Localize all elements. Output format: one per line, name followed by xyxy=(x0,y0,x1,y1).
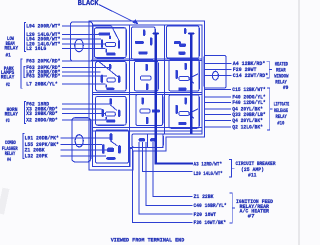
svg-text:L91 20DB/PK*: L91 20DB/PK* xyxy=(25,136,59,142)
svg-text:RELAY: RELAY xyxy=(4,46,18,52)
svg-text:Q2 12LG/BK*: Q2 12LG/BK* xyxy=(232,124,263,130)
svg-text:VIEWED FROM TERMINAL END: VIEWED FROM TERMINAL END xyxy=(111,236,185,243)
svg-text:Q33 20BR/LB*: Q33 20BR/LB* xyxy=(232,112,265,118)
svg-text:A3 12RD/WT*: A3 12RD/WT* xyxy=(194,161,223,167)
svg-text:#4: #4 xyxy=(7,157,11,163)
svg-text:F63 20PK/RD*: F63 20PK/RD* xyxy=(26,74,60,80)
svg-text:L2 16LG: L2 16LG xyxy=(26,46,46,52)
svg-text:F20 18WT: F20 18WT xyxy=(194,212,217,218)
svg-text:#1: #1 xyxy=(6,53,11,59)
svg-text:X2 20DG/RD*: X2 20DG/RD* xyxy=(26,117,58,123)
svg-text:RELEASE: RELEASE xyxy=(274,108,288,114)
svg-text:#11: #11 xyxy=(248,173,257,179)
svg-text:L94 200R/WT*: L94 200R/WT* xyxy=(26,24,60,30)
svg-text:L20 14LG/WT*: L20 14LG/WT* xyxy=(194,171,223,177)
svg-text:RELAY: RELAY xyxy=(276,114,288,120)
svg-text:#3: #3 xyxy=(6,118,10,124)
svg-text:X3 20BK/RD*: X3 20BK/RD* xyxy=(26,111,58,117)
svg-text:RELAY: RELAY xyxy=(5,112,19,118)
svg-text:#10: #10 xyxy=(277,120,284,126)
svg-text:Z1 20BK: Z1 20BK xyxy=(25,147,46,153)
svg-text:#7: #7 xyxy=(248,214,255,220)
svg-text:L7 20BK/YL*: L7 20BK/YL* xyxy=(26,81,58,87)
svg-text:RELAY: RELAY xyxy=(1,75,15,81)
svg-text:BLACK: BLACK xyxy=(78,0,100,8)
svg-text:C14 22WT/RD*: C14 22WT/RD* xyxy=(233,73,268,79)
svg-text:L32 20PK: L32 20PK xyxy=(25,154,49,160)
svg-text:Z1 22BK: Z1 22BK xyxy=(194,194,215,200)
svg-text:#2: #2 xyxy=(6,82,10,88)
svg-text:C40 16BR/YL*: C40 16BR/YL* xyxy=(194,203,227,209)
svg-text:F40 12DG/YL*: F40 12DG/YL* xyxy=(232,100,265,106)
svg-text:LIFTGATE: LIFTGATE xyxy=(274,102,290,108)
svg-text:F63 20PK/RD*: F63 20PK/RD* xyxy=(26,59,60,65)
svg-text:F36 16WT/BK*: F36 16WT/BK* xyxy=(194,220,227,226)
svg-text:Q4 20YL/BK*: Q4 20YL/BK* xyxy=(232,118,263,124)
svg-text:#9: #9 xyxy=(283,85,289,91)
svg-text:C15 12BK/WT*: C15 12BK/WT* xyxy=(232,87,265,93)
svg-text:COMBO: COMBO xyxy=(5,140,16,146)
